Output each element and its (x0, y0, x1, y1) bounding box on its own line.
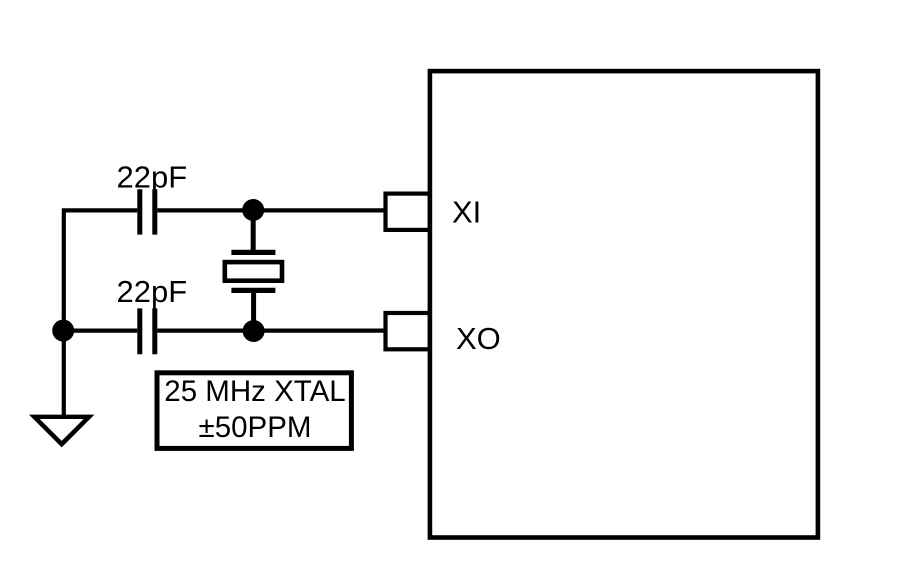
svg-text:±50PPM: ±50PPM (199, 411, 312, 444)
pin XO (pin box on left edge of U1) (386, 313, 430, 349)
node C (junction dot on ground rail) (52, 320, 74, 342)
pin XI (pin box on left edge of U1) (386, 194, 430, 230)
wire: XO net, segment from C2 to pin XO (157, 329, 385, 333)
ground (29, 415, 95, 448)
wire: from crystal bottom plate down to node B (251, 292, 256, 332)
capacitor C1 22pF (series cap in XI line) (140, 189, 155, 234)
wire: from node A down to crystal top plate (251, 210, 256, 251)
svg-text:22pF: 22pF (117, 274, 188, 309)
wire: XI net, segment from C1 to pin XI (157, 208, 385, 212)
node A (junction dot on XI net) (242, 199, 264, 221)
capacitor C2 22pF (series cap in XO line) (140, 308, 155, 354)
IC U1 (main chip body) (430, 71, 818, 537)
node B (junction dot on XO net at crystal) (243, 320, 265, 342)
svg-text:22pF: 22pF (117, 160, 188, 195)
wire: XI net, left segment from left rail to C1 (62, 208, 138, 212)
svg-text:XI: XI (452, 195, 481, 230)
note box: 25 MHz XTAL +/-50PPM (157, 373, 351, 449)
wire: XO net, left segment from ground rail to C2 (61, 329, 138, 333)
crystal Y1 (quartz XTAL symbol) (225, 252, 282, 290)
svg-text:25 MHz XTAL: 25 MHz XTAL (164, 375, 345, 408)
svg-text:XO: XO (456, 321, 501, 356)
wire: left rail from XI net corner down through node C to ground (62, 212, 66, 415)
